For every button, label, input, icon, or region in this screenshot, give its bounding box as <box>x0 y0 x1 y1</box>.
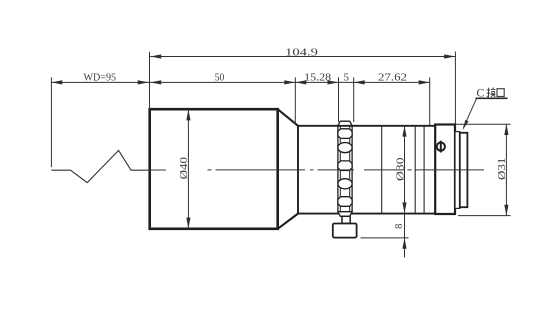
svg-text:Ø40: Ø40 <box>178 156 190 179</box>
svg-text:5: 5 <box>344 72 350 84</box>
svg-text:104.9: 104.9 <box>285 46 319 58</box>
svg-text:Ø30: Ø30 <box>394 157 406 181</box>
svg-text:Ø31: Ø31 <box>496 158 508 181</box>
svg-text:27.62: 27.62 <box>378 72 407 84</box>
svg-text:C: C <box>476 86 484 100</box>
svg-text:WD=95: WD=95 <box>84 72 117 84</box>
svg-text:50: 50 <box>215 72 225 84</box>
svg-text:15.28: 15.28 <box>304 72 332 84</box>
svg-text:8: 8 <box>394 224 405 229</box>
